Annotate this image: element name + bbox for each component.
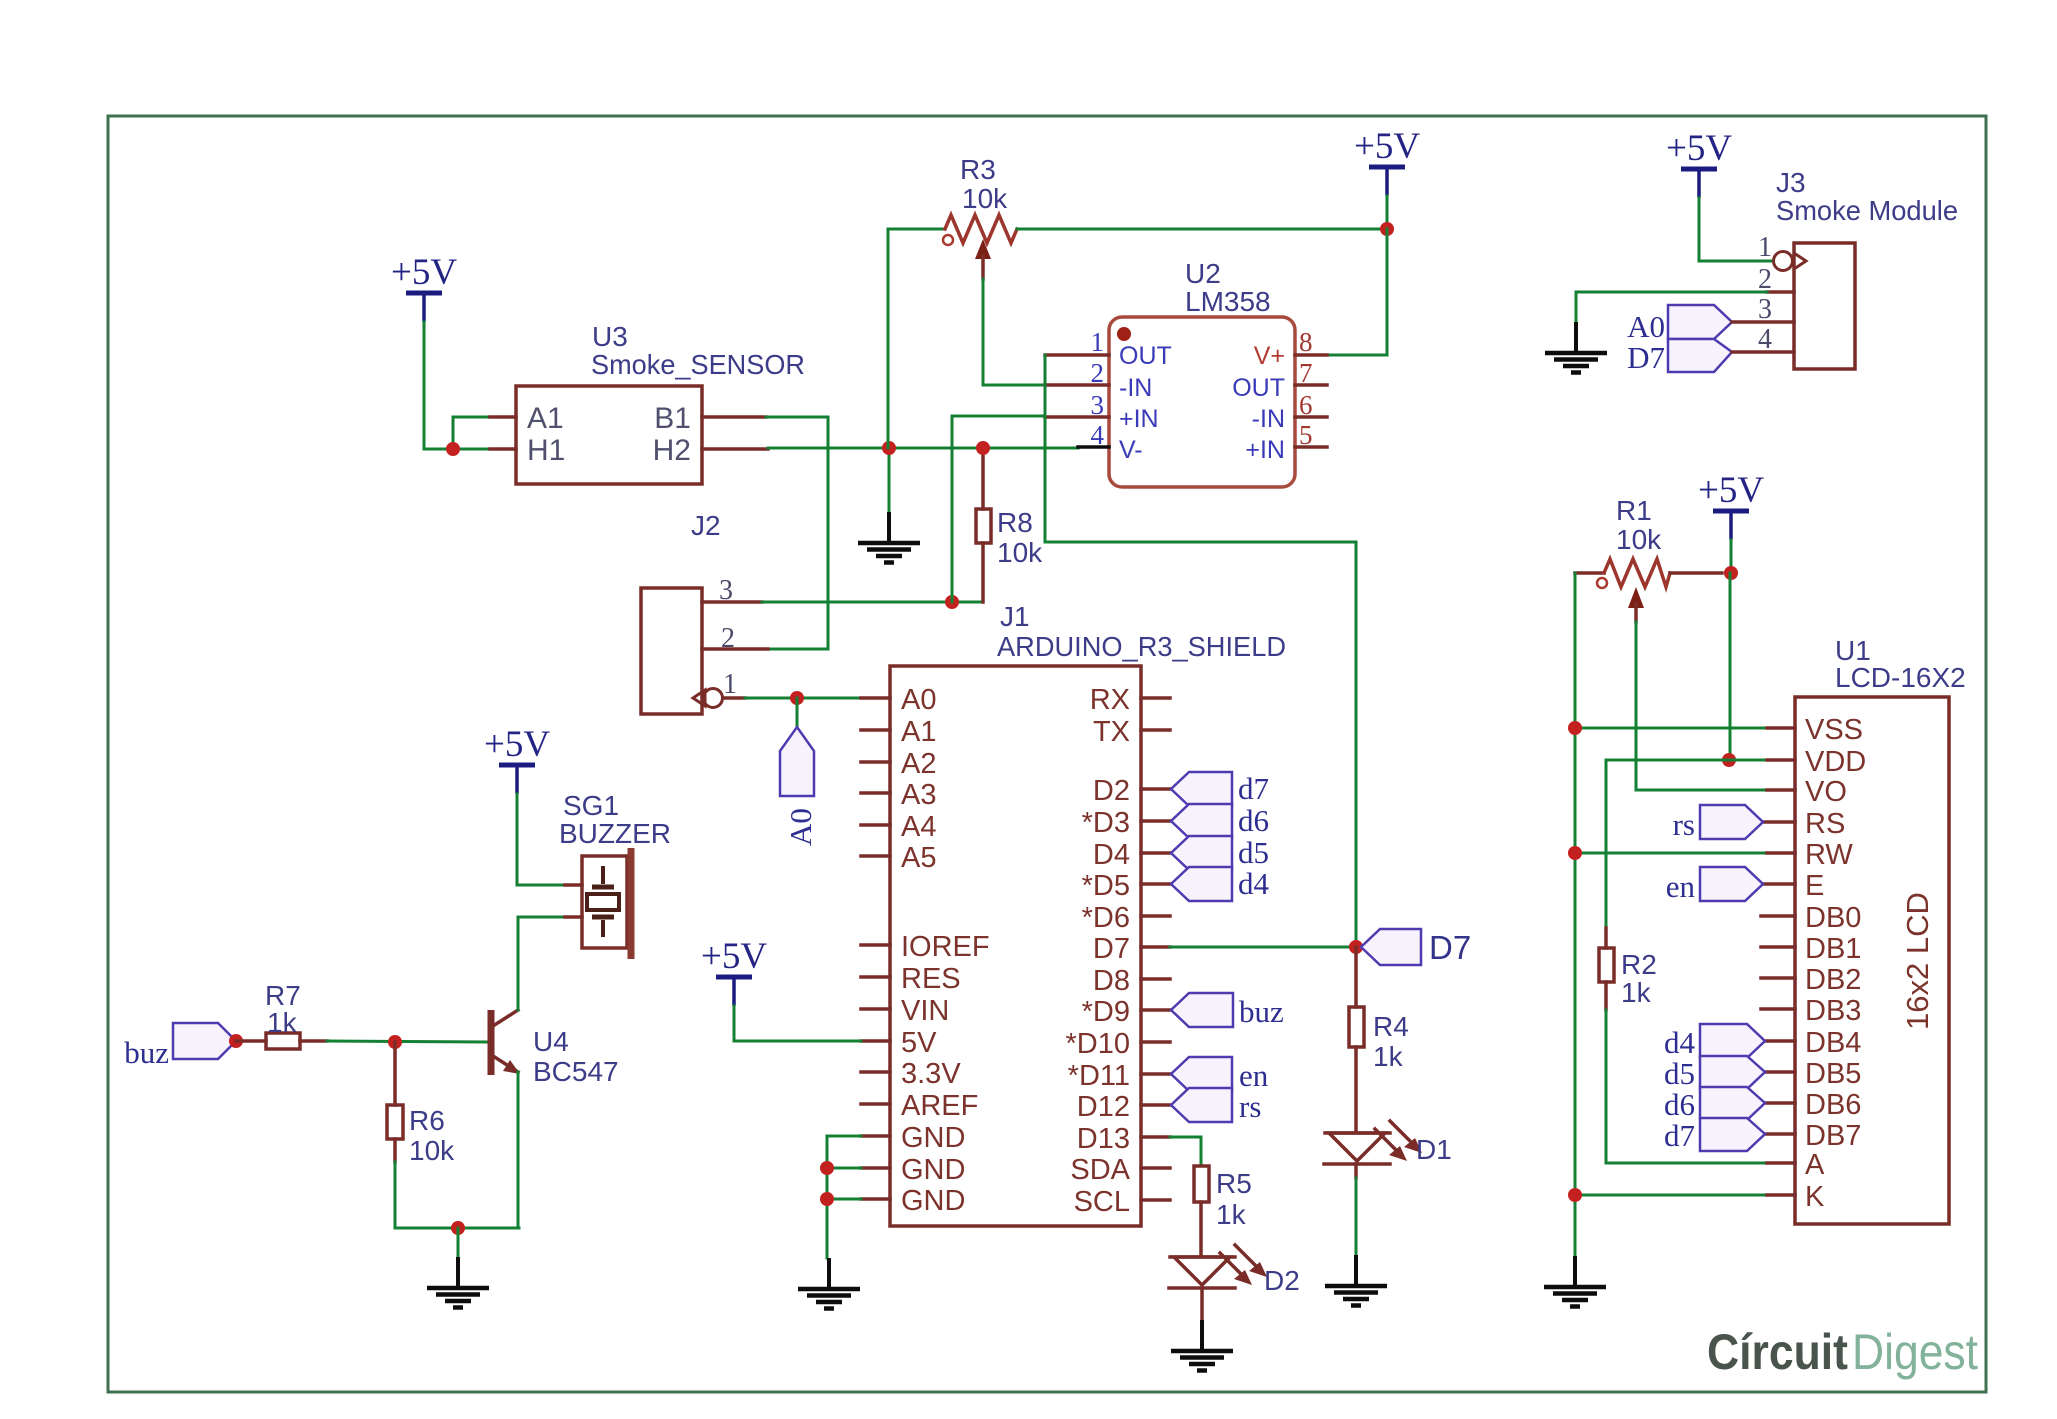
svg-text:2: 2 [1091, 358, 1105, 388]
pin D12 stub [1141, 1103, 1170, 1107]
R1 pin1 circle marker [1597, 578, 1607, 588]
resistor R2 1k [1604, 928, 1608, 948]
wire D1 to ground [1354, 1164, 1358, 1178]
wire +5V stem to node [1386, 196, 1389, 229]
pin VO stub [1767, 788, 1795, 792]
pin DB0 stub [1761, 914, 1795, 918]
svg-text:-IN: -IN [1252, 405, 1285, 433]
power +5V symbol (U3 supply) [391, 252, 457, 322]
connector J2 box [641, 588, 702, 714]
op-amp U2 LM358 box [1109, 317, 1295, 487]
node VSS junction [1568, 721, 1582, 735]
wire D2 to ground [1200, 1288, 1204, 1320]
svg-text:R5: R5 [1216, 1168, 1252, 1199]
svg-text:A1: A1 [527, 402, 564, 435]
tag rs (LCD RS) [1700, 805, 1763, 839]
potentiometer R1 10k zigzag [1575, 571, 1604, 575]
svg-text:16x2 LCD: 16x2 LCD [1900, 892, 1935, 1030]
svg-text:5: 5 [1299, 420, 1313, 450]
pin 6 stub of U2 [1295, 415, 1327, 419]
resistor R7 1k [236, 1039, 266, 1043]
svg-text:D4: D4 [1093, 839, 1130, 871]
svg-text:H1: H1 [527, 434, 565, 467]
svg-text:-IN: -IN [1119, 374, 1152, 402]
svg-text:10k: 10k [1616, 524, 1662, 555]
pin VSS stub [1767, 726, 1795, 730]
svg-text:AREF: AREF [901, 1090, 978, 1122]
pin 2 stub of J3 [1767, 290, 1794, 294]
wire R2 bottom to A pin [1606, 1010, 1767, 1163]
svg-text:BC547: BC547 [533, 1056, 619, 1087]
svg-text:d4: d4 [1664, 1025, 1696, 1060]
pin RW stub [1767, 851, 1795, 855]
svg-text:DB3: DB3 [1805, 995, 1861, 1027]
svg-text:SDA: SDA [1070, 1154, 1130, 1186]
pin A5 stub [861, 854, 890, 858]
node A0 tag junction [790, 691, 804, 705]
svg-text:J3: J3 [1776, 167, 1806, 198]
svg-text:V+: V+ [1254, 342, 1285, 370]
svg-text:*D10: *D10 [1066, 1028, 1131, 1060]
wire VDD branch down to R2 [1605, 760, 1608, 928]
ground (LCD K) [1544, 1256, 1606, 1307]
wire D13 to R5 [1170, 1137, 1201, 1166]
wire +5V to J1 5V pin [734, 1006, 861, 1041]
svg-text:RS: RS [1805, 808, 1845, 840]
svg-text:1: 1 [1091, 327, 1105, 357]
wire +5V to H1 pin of U3 [424, 322, 490, 449]
pin DB2 stub [1761, 976, 1795, 980]
pin RES stub [861, 975, 890, 979]
svg-text:R4: R4 [1373, 1011, 1409, 1042]
node R3/+5V junction [1380, 222, 1394, 236]
pin SDA stub [1141, 1166, 1170, 1170]
svg-text:TX: TX [1093, 716, 1130, 748]
wire U2 OUT to D7 net riser [1045, 355, 1356, 947]
wire emitter down [517, 1072, 520, 1228]
R1 wiper arrow [1628, 587, 1644, 608]
wire B1 to J2 pin 2 [766, 417, 828, 649]
wire to A0 tag [796, 698, 799, 727]
wire +5V to J3 pin1 [1699, 198, 1774, 261]
svg-text:d6: d6 [1238, 803, 1269, 838]
pin GND3 stub [861, 1197, 890, 1201]
wire ground drop [457, 1228, 460, 1257]
svg-text:DB6: DB6 [1805, 1089, 1861, 1121]
svg-text:IOREF: IOREF [901, 931, 990, 963]
pin 3 stub of J3 [1732, 320, 1794, 324]
tag d7 (LCD DB7) [1700, 1118, 1765, 1151]
wire J2 pin1 to J1 A0 [745, 697, 861, 700]
power +5V symbol (buzzer supply) [484, 724, 550, 794]
svg-text:D7: D7 [1429, 929, 1471, 966]
U2 polarity dot [1117, 327, 1131, 341]
svg-text:B1: B1 [654, 402, 691, 435]
svg-text:10k: 10k [997, 537, 1043, 568]
pin 8 stub of U2 [1295, 353, 1327, 357]
component U3 Smoke_SENSOR box [516, 386, 702, 484]
svg-text:R3: R3 [960, 154, 996, 185]
svg-text:VIN: VIN [901, 995, 949, 1027]
svg-text:2: 2 [1758, 264, 1772, 295]
svg-text:D7: D7 [1093, 933, 1130, 965]
pin 7 stub of U2 [1295, 383, 1327, 387]
pin E stub [1763, 882, 1795, 886]
svg-text:1: 1 [1758, 232, 1772, 263]
pin D2 stub [1141, 787, 1170, 791]
pin A1 stub of U3 [490, 415, 516, 419]
wire R7 to base node [327, 1041, 488, 1042]
node buz tag junction [229, 1034, 243, 1048]
node ground junction (emitter rail) [451, 1221, 465, 1235]
tag d4 (J1 D5) [1171, 867, 1232, 901]
svg-text:d4: d4 [1238, 866, 1270, 901]
potentiometer R3 10k zigzag [945, 215, 1017, 243]
svg-text:D13: D13 [1077, 1123, 1130, 1155]
tag d7 (J1 D2) [1171, 772, 1232, 806]
wire R6 bottom to emitter rail [395, 1162, 519, 1228]
pin SCL stub [1141, 1198, 1170, 1202]
svg-text:d7: d7 [1664, 1118, 1695, 1153]
LED D1 [1324, 1121, 1422, 1164]
svg-text:U3: U3 [592, 321, 628, 352]
wire ground branch from H2 net [888, 448, 891, 512]
svg-text:DB7: DB7 [1805, 1120, 1861, 1152]
pin TX stub [1141, 728, 1170, 732]
tag d5 (J1 D4) [1171, 836, 1232, 870]
pin A0 stub of J1 [861, 696, 890, 700]
svg-text:*D9: *D9 [1082, 996, 1130, 1028]
ground (H2 / V- net) [858, 512, 920, 563]
node VDD junction [1722, 753, 1736, 767]
resistor R5 1k [1194, 1166, 1209, 1202]
svg-text:D7: D7 [1627, 340, 1665, 375]
power +5V symbol (J3 supply) [1666, 128, 1732, 198]
svg-text:5V: 5V [901, 1027, 937, 1059]
tag buz (J1 D9) [1171, 993, 1233, 1027]
resistor R6 10k [393, 1042, 397, 1105]
wire +IN riser to U2 pin3 [952, 416, 1045, 602]
svg-text:8: 8 [1299, 327, 1313, 357]
ground (D2) [1171, 1320, 1233, 1371]
svg-text:rs: rs [1673, 807, 1695, 842]
pin RX stub [1141, 696, 1170, 700]
pin IOREF stub [861, 943, 890, 947]
wire +5V down to U2 pin8 [1327, 229, 1387, 355]
pin A4 stub [861, 823, 890, 827]
pin 1 marker arrow of J2 [693, 690, 705, 706]
pin GND1 stub [861, 1134, 890, 1138]
node H2/ground junction [882, 441, 896, 455]
svg-text:RW: RW [1805, 839, 1853, 871]
svg-text:DB0: DB0 [1805, 902, 1861, 934]
pin DB6 stub [1765, 1101, 1795, 1105]
pin B1 stub of U3 [702, 415, 766, 419]
svg-text:A0: A0 [901, 684, 936, 716]
pin 4 stub of J3 [1732, 350, 1794, 354]
wire RW row [1575, 852, 1767, 855]
wire R1 wiper to VO [1636, 622, 1767, 790]
wire J3 pin2 to ground [1576, 292, 1767, 330]
svg-text:J2: J2 [691, 510, 721, 541]
svg-text:R2: R2 [1621, 949, 1657, 980]
pin 3 stub of J2 [702, 600, 762, 604]
svg-text:A3: A3 [901, 779, 936, 811]
shield J1 ARDUINO_R3_SHIELD box [890, 666, 1141, 1226]
tag d4 (LCD DB4) [1700, 1024, 1765, 1058]
svg-text:3: 3 [719, 575, 733, 606]
svg-text:GND: GND [901, 1185, 965, 1217]
svg-text:A5: A5 [901, 842, 936, 874]
svg-text:7: 7 [1299, 358, 1313, 388]
node R1/+5V junction [1724, 566, 1738, 580]
node GND2 junction [820, 1161, 834, 1175]
svg-text:d5: d5 [1664, 1056, 1695, 1091]
pin A2 stub [861, 760, 890, 764]
power +5V symbol (J1 5V pin) [701, 936, 767, 1006]
pin 1 stub of J2 [723, 696, 745, 700]
pin 1 marker arrow of J3 [1794, 253, 1806, 269]
svg-text:D1: D1 [1416, 1134, 1452, 1165]
tag A0 (J3 pin3) [1668, 305, 1732, 339]
svg-text:H2: H2 [653, 434, 691, 467]
tag rs (J1 D12) [1171, 1088, 1232, 1122]
pin 5V stub [861, 1039, 890, 1043]
pin GND2 stub [861, 1166, 890, 1170]
pin DB7 stub [1765, 1132, 1795, 1136]
svg-text:D2: D2 [1093, 775, 1130, 807]
pin DB3 stub [1761, 1007, 1795, 1011]
pin 4 stub of U2 (V-) [1078, 445, 1109, 449]
svg-text:buz: buz [1239, 994, 1284, 1029]
svg-text:en: en [1239, 1058, 1269, 1093]
pin D8 stub [1141, 977, 1170, 981]
tag D7 (J3 pin4) [1668, 339, 1732, 372]
svg-text:*D5: *D5 [1082, 870, 1130, 902]
pin 2 stub of J2 [702, 647, 768, 651]
svg-text:d6: d6 [1664, 1087, 1695, 1122]
pin D5 stub [1141, 882, 1170, 886]
node RW junction [1568, 846, 1582, 860]
wire K row to ground rail [1575, 1194, 1767, 1197]
svg-text:*D6: *D6 [1082, 902, 1130, 934]
connector J3 box [1794, 243, 1855, 369]
wire R3 wiper to U2 -IN [983, 279, 1045, 385]
svg-text:10k: 10k [962, 183, 1008, 214]
ground (J3) [1545, 322, 1607, 373]
wire collector up to buzzer [518, 917, 565, 1010]
svg-text:1k: 1k [267, 1007, 298, 1038]
svg-text:OUT: OUT [1119, 342, 1172, 370]
wire R3 left end down to H2 net [888, 229, 945, 448]
svg-text:VO: VO [1805, 776, 1847, 808]
pin D6 stub [1141, 914, 1170, 918]
pin DB5 stub [1765, 1070, 1795, 1074]
svg-text:R6: R6 [409, 1105, 445, 1136]
wire VDD row [1606, 759, 1767, 762]
tag d6 (LCD DB6) [1700, 1087, 1765, 1120]
svg-text:A1: A1 [901, 716, 936, 748]
svg-text:1k: 1k [1216, 1199, 1247, 1230]
svg-text:R1: R1 [1616, 495, 1652, 526]
pin A3 stub [861, 791, 890, 795]
ground (transistor emitter) [427, 1257, 489, 1308]
pin A stub [1767, 1161, 1795, 1165]
svg-text:R8: R8 [997, 507, 1033, 538]
svg-text:GND: GND [901, 1122, 965, 1154]
pin D4 stub [1141, 851, 1170, 855]
tag buz (left, base drive) [173, 1023, 236, 1059]
pin 3.3V stub [861, 1070, 890, 1074]
svg-text:ARDUINO_R3_SHIELD: ARDUINO_R3_SHIELD [997, 631, 1286, 662]
svg-text:DB1: DB1 [1805, 933, 1861, 965]
transistor U4 BC547 [491, 1010, 520, 1075]
svg-text:DB5: DB5 [1805, 1058, 1861, 1090]
tag en (J1 D11) [1171, 1057, 1232, 1091]
pin K stub [1767, 1193, 1795, 1197]
svg-text:D12: D12 [1077, 1091, 1130, 1123]
ground (D1) [1325, 1255, 1387, 1306]
svg-text:1: 1 [723, 669, 737, 700]
svg-text:J1: J1 [1000, 601, 1030, 632]
tag d5 (LCD DB5) [1700, 1056, 1765, 1089]
svg-text:DB2: DB2 [1805, 964, 1861, 996]
svg-text:4: 4 [1091, 420, 1105, 450]
svg-text:D2: D2 [1264, 1265, 1300, 1296]
pin VIN stub [861, 1007, 890, 1011]
power +5V symbol (LCD supply) [1698, 470, 1764, 540]
pin 1 circle of J2 [704, 689, 723, 708]
pin 1 stub of U2 [1045, 353, 1109, 357]
resistor R8 10k [981, 448, 985, 509]
pin D3 stub [1141, 819, 1170, 823]
wire J1 GND pins to ground [827, 1136, 861, 1258]
node +IN junction [945, 595, 959, 609]
svg-text:3: 3 [1091, 390, 1105, 420]
svg-text:BUZZER: BUZZER [559, 818, 671, 849]
svg-text:GND: GND [901, 1154, 965, 1186]
pin 2 stub of U2 [1045, 383, 1109, 387]
pin AREF stub [861, 1102, 890, 1106]
svg-text:*D3: *D3 [1082, 807, 1130, 839]
svg-text:Smoke_SENSOR: Smoke_SENSOR [591, 349, 805, 380]
wire R3 right to +5V node [1017, 228, 1387, 231]
node GND3 junction [820, 1192, 834, 1206]
svg-text:SG1: SG1 [563, 790, 619, 821]
resistor R4 1k [1354, 947, 1358, 1007]
svg-text:d7: d7 [1238, 771, 1269, 806]
pin H2 stub of U3 [702, 447, 768, 451]
tag A0 (net label at J1) [780, 727, 814, 796]
svg-text:LM358: LM358 [1185, 286, 1271, 317]
R3 wiper arrow [975, 239, 991, 259]
svg-text:2: 2 [721, 623, 735, 654]
svg-text:d5: d5 [1238, 835, 1269, 870]
svg-text:buz: buz [124, 1035, 169, 1070]
svg-text:LCD-16X2: LCD-16X2 [1835, 662, 1966, 693]
wire VSS row [1575, 727, 1767, 730]
pin A1 stub [861, 728, 890, 732]
wire +5V to R1 right node [1730, 540, 1733, 573]
wire R1 left down VSS/RW/K rail [1574, 573, 1577, 1257]
node R8 top junction [976, 441, 990, 455]
pin D7 stub [1141, 945, 1170, 949]
svg-text:DB4: DB4 [1805, 1027, 1861, 1059]
pin D9 stub [1141, 1008, 1170, 1012]
svg-text:Círcuit: Círcuit [1707, 1324, 1848, 1380]
pin DB4 stub [1765, 1039, 1795, 1043]
pin 5 stub of U2 [1295, 445, 1327, 449]
display U1 LCD-16X2 box [1795, 697, 1949, 1224]
buzzer SG1 [565, 848, 631, 959]
svg-text:U2: U2 [1185, 258, 1221, 289]
svg-text:A0: A0 [783, 808, 818, 846]
pin D10 stub [1141, 1040, 1170, 1044]
svg-text:A: A [1805, 1149, 1825, 1181]
svg-text:3.3V: 3.3V [901, 1058, 961, 1090]
ground (J1) [798, 1258, 860, 1309]
R3 pin1 circle marker [943, 235, 953, 245]
svg-text:Digest: Digest [1852, 1324, 1978, 1380]
svg-text:A4: A4 [901, 811, 936, 843]
node K junction [1568, 1188, 1582, 1202]
svg-text:U4: U4 [533, 1026, 569, 1057]
svg-text:*D11: *D11 [1068, 1060, 1130, 1092]
wire H2 to U2 V- [768, 447, 1078, 450]
power +5V symbol (U2 supply) [1354, 126, 1420, 196]
svg-text:OUT: OUT [1232, 374, 1285, 402]
LED D2 [1169, 1245, 1267, 1288]
svg-text:V-: V- [1119, 436, 1143, 464]
node +5V/A1/H1 junction [446, 442, 460, 456]
svg-text:A2: A2 [901, 748, 936, 780]
wire J1 D7 to net [1170, 946, 1356, 949]
tag en (LCD E) [1700, 867, 1763, 901]
svg-text:3: 3 [1758, 294, 1772, 325]
node base/R6 junction [388, 1035, 402, 1049]
wire +5V to buzzer top pin [517, 794, 565, 885]
svg-text:SCL: SCL [1074, 1186, 1130, 1218]
svg-text:en: en [1666, 869, 1696, 904]
pin DB1 stub [1761, 945, 1795, 949]
node D7 net junction [1349, 940, 1363, 954]
pin D13 stub [1141, 1135, 1170, 1139]
svg-text:E: E [1805, 870, 1824, 902]
pin VDD stub [1767, 758, 1795, 762]
pin 3 stub of U2 [1045, 415, 1109, 419]
svg-text:+IN: +IN [1245, 436, 1285, 464]
svg-text:rs: rs [1239, 1089, 1261, 1124]
svg-text:Smoke Module: Smoke Module [1776, 195, 1958, 226]
wire +5V down to VDD [1729, 573, 1732, 760]
svg-text:K: K [1805, 1181, 1825, 1213]
pin RS stub [1763, 820, 1795, 824]
svg-text:6: 6 [1299, 390, 1313, 420]
svg-text:RX: RX [1090, 684, 1130, 716]
svg-text:4: 4 [1758, 324, 1772, 355]
svg-text:+IN: +IN [1119, 405, 1159, 433]
svg-text:10k: 10k [409, 1135, 455, 1166]
svg-text:VSS: VSS [1805, 714, 1863, 746]
pin D11 stub [1141, 1072, 1170, 1076]
wire A1 branch to +5V node [453, 417, 490, 449]
svg-text:VDD: VDD [1805, 746, 1866, 778]
tag d6 (J1 D3) [1171, 804, 1232, 838]
pin 1 circle of J3 [1774, 252, 1793, 271]
svg-text:1k: 1k [1621, 977, 1652, 1008]
svg-text:D8: D8 [1093, 965, 1130, 997]
svg-text:1k: 1k [1373, 1041, 1404, 1072]
